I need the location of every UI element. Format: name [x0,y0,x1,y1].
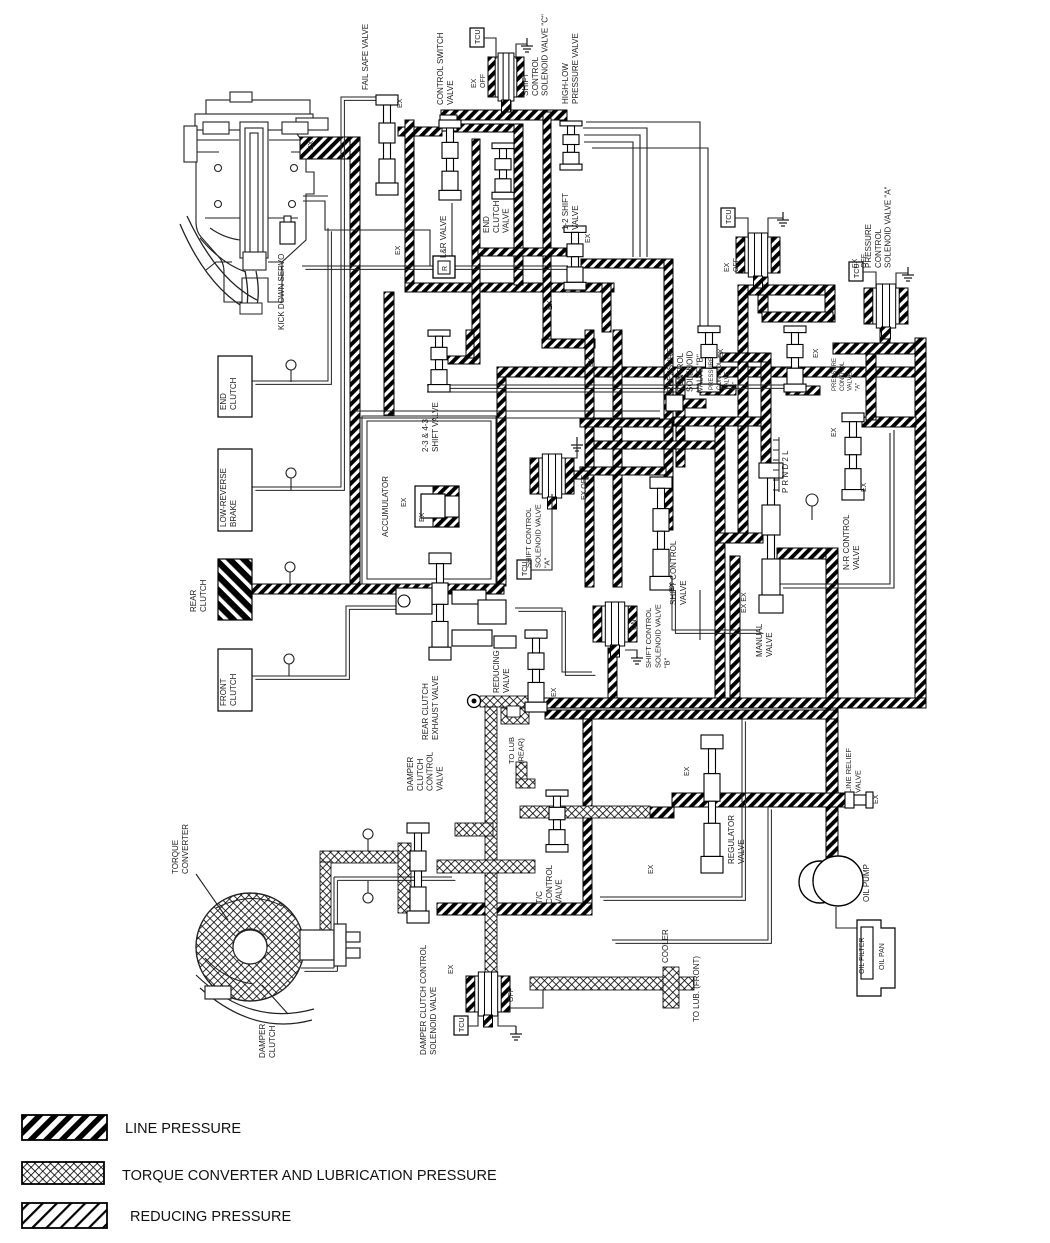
svg-text:MANUAL: MANUAL [755,623,764,657]
svg-text:PRESSURE: PRESSURE [709,357,715,390]
wire T/C supply from reducing valve [480,696,544,707]
pin converter line up [363,829,373,851]
svg-text:DAMPER: DAMPER [258,1024,267,1058]
label damper clutch solenoid [419,944,438,1055]
wire pressure-control sol A stem [880,328,890,345]
label end clutch valve [482,200,511,233]
svg-text:2-3 & 4-3: 2-3 & 4-3 [421,419,430,452]
svg-text:OFF: OFF [733,258,740,272]
svg-text:SHIFT: SHIFT [521,73,530,96]
ground damper sol [510,1026,522,1040]
svg-text:R: R [442,266,449,271]
L&R valve [433,256,455,278]
svg-text:VALVE: VALVE [765,632,774,657]
svg-text:SHIFT VALVE: SHIFT VALVE [431,402,440,452]
reducing valve [525,630,547,712]
TCU box solenoid C [470,28,484,47]
wire converter return V [333,877,335,968]
svg-text:EX OFF: EX OFF [581,475,588,500]
wire gnd-shiftA [562,443,577,458]
wire damper sol link [496,990,543,1008]
label pressure control solenoid A [864,186,893,268]
svg-text:OFF: OFF [480,74,487,88]
svg-text:1-2 SHIFT: 1-2 SHIFT [561,193,570,230]
wire bottom line to damper valve [437,903,592,915]
wire horizontal y248 [478,248,566,256]
accumulator enclosure [362,416,496,584]
svg-text:EX: EX [588,357,595,367]
plug capsule [666,395,683,411]
label ex NR2 [861,482,868,492]
svg-text:"B": "B" [732,382,738,390]
svg-text:EX: EX [669,582,676,592]
rear clutch exhaust valve right pieces [452,590,516,648]
svg-text:DAMPER: DAMPER [406,757,415,791]
svg-text:TCU: TCU [726,210,733,224]
rear clutch exhaust valve arm [396,588,432,614]
svg-text:SOLENOID VALVE "C": SOLENOID VALVE "C" [541,14,550,96]
svg-text:CONVERTER: CONVERTER [181,824,190,874]
svg-text:EX: EX [813,348,820,358]
label fail safe valve [361,24,370,90]
svg-text:REAR: REAR [189,590,198,612]
2-3 and 4-3 shift valve [428,330,450,392]
svg-text:COOLER: COOLER [661,929,670,963]
wire solenoid frame right [825,285,835,322]
label on shiftB [631,620,638,631]
N-R control valve [842,413,864,500]
TCU box shift sol A [517,560,531,579]
wire manual valve right vertical down to oil pump [826,548,838,858]
wire servo line a [303,195,328,197]
wire short above 2-3 shift valve [448,356,474,364]
label torque converter [171,824,190,874]
label off damper sol [508,988,515,1002]
pin low-reverse [286,468,296,490]
label rear clutch exhaust valve [421,676,440,740]
wire solenoid frame top [738,285,835,295]
label L&R valve [439,216,448,258]
wire T/C main vertical [485,707,497,979]
svg-text:SHIFT CONTROL: SHIFT CONTROL [644,608,653,668]
wire end clutch line [252,228,328,381]
end clutch box [218,356,252,417]
svg-text:SOLENOID VALVE: SOLENOID VALVE [429,987,438,1055]
wire below PC valve A [786,386,820,395]
wire below PC valve B [700,386,736,395]
wire thin y418 [360,417,660,419]
wire vertical end clutch valve frame [514,124,523,285]
svg-text:EX: EX [684,766,691,776]
oil filter and oil pan [857,920,895,996]
wire solenoid C stem [502,94,511,112]
svg-text:"B": "B" [663,657,672,668]
label damper clutch control valve [406,751,444,791]
ground sol B [777,212,789,226]
wire vertical x585 [585,330,594,587]
label ex damper sol [448,964,455,974]
svg-text:EX: EX [419,512,426,522]
label ex off shiftA [581,475,588,500]
wire to-lub-rear stub lower [516,762,527,784]
wire long bus y367 [497,367,920,377]
TCU box damper sol [454,1016,468,1035]
wire T/C control feed [520,806,650,818]
svg-text:EX: EX [648,864,655,874]
wire low-reverse brake line [252,97,379,487]
svg-text:EX: EX [861,482,868,492]
front clutch box [218,649,252,711]
wire second bus row [450,124,520,132]
svg-text:EX: EX [831,427,838,437]
svg-text:REGULATOR: REGULATOR [727,815,736,864]
wire N-R feed [862,417,916,427]
svg-text:VALVE: VALVE [502,668,511,693]
wire solenoid frame inner [762,312,833,322]
wire N-R enclosure inner [779,433,890,584]
wire rear clutch line [252,584,504,594]
wire high-low loop A [583,128,647,257]
svg-text:EX: EX [718,348,725,358]
wire ball stem [811,497,813,520]
label shift control solenoid B [644,604,672,668]
svg-text:VALVE: VALVE [853,770,862,793]
label ex pcvB [718,348,725,358]
svg-text:OIL PUMP: OIL PUMP [862,864,871,902]
label ex failsafe [397,98,404,108]
label ex reducing [551,687,558,697]
svg-text:CLUTCH: CLUTCH [492,200,501,233]
svg-text:FRONT: FRONT [219,678,228,706]
wire regulator bus [672,793,849,807]
label ex x400 [395,245,402,255]
svg-text:CONTROL: CONTROL [717,360,723,390]
label ex off pcB [724,258,740,272]
label shift control solenoid valve C [521,14,550,96]
wire to-lub-rear stub upper [501,708,529,724]
svg-text:VALVE: VALVE [446,80,455,105]
wire gnd-C [516,44,527,59]
label ex off C [471,74,487,88]
control switch valve [439,120,461,200]
svg-text:HIGH-LOW: HIGH-LOW [561,63,570,104]
wire vertical below top bus [543,112,551,340]
svg-text:CLUTCH: CLUTCH [268,1025,277,1058]
svg-text:CONTROL: CONTROL [840,361,846,391]
ground shift sol A [571,437,583,451]
label to lub front [692,956,701,1022]
svg-text:VALVE: VALVE [435,766,444,791]
svg-text:SHIFT CONTROL: SHIFT CONTROL [669,540,678,605]
wire vertical to 2-3 shift valve [472,139,480,364]
svg-text:VALVE: VALVE [679,580,688,605]
plug on second bus row [440,115,457,131]
svg-text:TCU: TCU [459,1018,466,1032]
wire shift ctl to manual [672,587,760,630]
svg-text:(REAR): (REAR) [516,738,525,764]
wire gnd-A [896,273,908,288]
wire regulator return B [612,806,768,940]
label pressure control solenoid B [666,348,704,392]
svg-text:REDUCING PRESSURE: REDUCING PRESSURE [130,1209,291,1225]
wire thin y411 [355,410,660,412]
svg-text:REAR CLUTCH: REAR CLUTCH [421,683,430,740]
wire gnd-shiftB [625,650,637,656]
label ex mid [588,357,595,367]
wire high-low loop C [584,142,633,257]
svg-text:FAIL SAFE VALVE: FAIL SAFE VALVE [361,24,370,90]
svg-text:SOLENOID VALVE: SOLENOID VALVE [653,604,662,668]
wire damper valve left strip [398,843,411,913]
svg-text:PRESSURE VALVE: PRESSURE VALVE [571,33,580,104]
wire high-low to PC valve B [586,122,700,330]
svg-text:EX: EX [547,300,554,310]
rear clutch exhaust valve [429,553,451,660]
wire capsule piece [682,399,706,408]
legend reducing pressure swatch [22,1203,107,1228]
svg-text:VALVE: VALVE [848,373,854,391]
svg-text:EX: EX [724,262,731,272]
label 2-3 4-3 shift valve [421,402,440,452]
wire stub to 2-3 valve [466,330,474,358]
wire vertical x664 [664,259,673,530]
wire cooler line [530,977,694,990]
shift control valve [650,477,672,590]
label N-R control valve [842,514,861,570]
svg-text:CONTROL: CONTROL [531,56,540,96]
PRND2L gate ticks [773,437,779,492]
svg-text:TCU: TCU [475,30,482,44]
torque converter leader [196,874,228,920]
low-reverse brake box [218,449,252,531]
wire PC valve B bottom link [720,353,771,362]
ground solenoid C [521,38,533,52]
shift control solenoid valve B [593,602,637,657]
wire TCU-damper [468,1012,478,1026]
wire N-R enclosure [783,430,894,588]
shift control solenoid valve C [488,53,524,112]
svg-text:EX: EX [852,258,859,268]
svg-text:P R N D 2 L: P R N D 2 L [781,450,790,493]
label ex servo [308,140,315,150]
svg-text:ACCUMULATOR: ACCUMULATOR [381,476,390,537]
svg-text:REDUCING: REDUCING [492,650,501,693]
svg-text:SHIFT CONTROL: SHIFT CONTROL [524,508,533,568]
svg-text:EX: EX [873,794,880,804]
label oil pump [862,864,871,902]
svg-text:ON: ON [631,620,638,631]
cooler [663,967,679,1008]
svg-text:TO LUB: TO LUB [507,737,516,764]
label control switch valve [436,32,455,105]
label ex regulator top [684,766,691,776]
label shift control valve [669,540,688,605]
label 1-2 shift valve [561,193,580,230]
svg-text:END: END [482,216,491,233]
label ex relief [873,794,880,804]
wire TCU-C [484,38,496,59]
torque converter body [196,893,360,1024]
wire front clutch line [252,606,424,676]
wire horizontal y259 [581,259,664,268]
wire regulator return A [600,718,742,897]
rear clutch box [218,559,252,620]
wire high-low to PC valve B 2 [592,148,708,330]
wire right big vertical [915,338,926,703]
1-2 shift valve [564,226,586,290]
svg-text:EX: EX [551,687,558,697]
kickdown band arcs [180,216,262,314]
label ex pcvA [813,348,820,358]
label ex endclutch [547,300,554,310]
servo release plug [280,222,295,244]
svg-text:DAMPER CLUTCH CONTROL: DAMPER CLUTCH CONTROL [419,944,428,1055]
label to lub rear [507,737,525,764]
svg-text:EX: EX [471,78,478,88]
svg-text:VALVE: VALVE [502,208,511,233]
pressure control solenoid valve A [864,284,908,339]
svg-text:PRESSURE: PRESSURE [666,348,675,392]
wire shift sol A stem [568,471,588,479]
label ex 1-2 [585,233,592,243]
svg-text:LOW-REVERSE: LOW-REVERSE [219,468,228,527]
legend line pressure swatch [22,1115,107,1140]
shift control solenoid valve A [530,454,574,509]
wire vertical x613 [613,330,622,587]
svg-text:CONTROL: CONTROL [545,864,554,904]
svg-text:L&R VALVE: L&R VALVE [439,216,448,258]
wire below shift sol B [608,648,617,698]
accumulator cap bottom [433,517,459,527]
label ex off pcA [852,254,868,268]
ground sol A [902,267,914,281]
wire vertical to N-R feed [866,354,876,420]
wire horizontal y467 [580,467,666,475]
svg-text:LINE PRESSURE: LINE PRESSURE [125,1121,241,1137]
wire vertical x384 [384,292,394,415]
svg-text:EX: EX [308,140,315,150]
node to lub rear ball [468,695,481,708]
svg-text:SOLENOID VALVE: SOLENOID VALVE [533,504,542,568]
wire vertical x738 [738,285,748,535]
damper clutch control solenoid valve [466,972,510,1027]
pressure control valve A [784,326,806,392]
ball check [488,606,498,616]
svg-text:OFF: OFF [861,254,868,268]
svg-text:EX: EX [585,233,592,243]
wire TCU-shiftA [531,494,552,570]
wire vertical x583 to bottom [583,719,592,905]
svg-text:END: END [219,393,228,410]
wire 2-3 valve long line A [427,384,786,386]
wire converter feed horizontal [320,851,402,863]
svg-text:VALVE: VALVE [725,372,731,390]
svg-text:EX: EX [395,245,402,255]
label PRND2L [781,450,790,493]
wire converter feed vertical [320,862,331,932]
svg-text:T/C: T/C [535,891,544,904]
kickdown servo [184,92,328,302]
svg-text:SOLENOID: SOLENOID [686,350,695,392]
wire vertical below fail-safe [405,120,414,288]
wire horizontal y339 [542,339,595,348]
wire horizontal y533 [715,533,763,543]
svg-text:EXHAUST VALVE: EXHAUST VALVE [431,676,440,740]
svg-text:"A": "A" [543,557,552,568]
wire horizontal y441 [594,441,716,449]
svg-text:CONTROL SWITCH: CONTROL SWITCH [436,32,445,105]
svg-text:CLUTCH: CLUTCH [416,758,425,791]
wire TCU-A [863,272,876,288]
svg-text:VALVE: VALVE [852,545,861,570]
wire TCU-B [735,218,748,237]
svg-text:EX EX: EX EX [741,592,748,613]
svg-text:VALVE: VALVE [555,879,564,904]
svg-text:PRESSURE: PRESSURE [832,358,838,391]
svg-text:LINE RELIEF: LINE RELIEF [844,748,853,793]
svg-text:KICK DOWN SERVO: KICK DOWN SERVO [277,254,286,330]
label reducing valve [492,650,511,693]
pin front clutch [284,654,294,676]
oil pump [799,861,841,903]
wire gnd-B [768,218,783,237]
wire pressure-control sol B stem [758,277,768,313]
wire manual valve top link [777,548,829,559]
svg-text:TORQUE: TORQUE [171,840,180,874]
wire T/C to damper valve [437,860,535,873]
wire main bus lower [545,710,838,719]
svg-text:CONTROL: CONTROL [676,352,685,392]
wire horizontal y419 [580,419,672,427]
pin rear clutch [285,562,295,584]
svg-text:VALVE "B": VALVE "B" [695,354,704,392]
wire kickdown servo apply link [300,137,352,159]
pin end clutch [286,360,296,382]
wire to-lub-rear foot [516,779,535,788]
label high-low pressure valve [561,33,580,104]
wire kickdown long line [302,265,568,267]
wire regulator bus step [650,807,674,818]
legend torque converter swatch [22,1162,104,1184]
wire control switch to L&R [435,203,452,258]
wire vertical x497 down to rear clutch line [497,377,506,586]
T/C control valve [546,790,568,852]
label ex rear exhaust [419,512,426,522]
wire servo line b [303,201,430,266]
svg-text:CLUTCH: CLUTCH [199,579,208,612]
wire vertical left main down to rear clutch line [350,137,360,590]
svg-text:TO LUB. (FRONT): TO LUB. (FRONT) [692,956,701,1022]
svg-text:EX: EX [401,497,408,507]
svg-text:OIL PAN: OIL PAN [879,943,886,970]
damper clutch control valve [407,823,429,923]
fail safe valve [376,95,398,195]
wire converter return short [301,967,334,969]
svg-text:TORQUE CONVERTER AND LUBRICATI: TORQUE CONVERTER AND LUBRICATION PRESSUR… [122,1168,497,1184]
wire fail-safe valve link [398,127,442,136]
svg-text:SOLENOID VALVE "A": SOLENOID VALVE "A" [884,186,893,268]
svg-text:OIL FILTER: OIL FILTER [859,937,866,974]
label cooler [661,929,670,963]
wire horizontal y417 right part [674,417,762,426]
wire thin manual [699,590,701,640]
wire run from sol A [833,343,926,354]
TCU box sol B [721,208,735,227]
wire manual valve left vertical [730,556,740,702]
accumulator [415,486,459,527]
label ex accumulator [401,497,408,507]
svg-text:CONTROL: CONTROL [426,751,435,791]
